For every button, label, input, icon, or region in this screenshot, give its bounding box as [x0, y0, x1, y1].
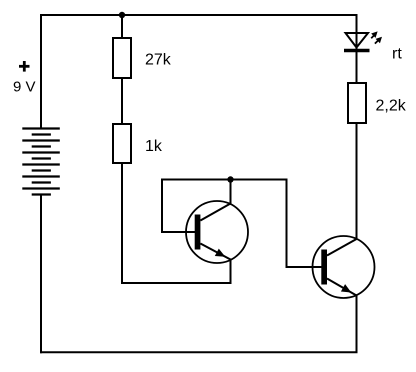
- wire top rail to 27k: [121, 15, 123, 38]
- node junction top dot: [119, 12, 125, 18]
- wire 1k to Q1 emitter: [122, 163, 231, 283]
- transistor Q1: [186, 201, 248, 263]
- LED emission arrow 1: [371, 31, 377, 38]
- wire bottom rail: [41, 351, 357, 353]
- wire left rail battery plus: [40, 15, 42, 128]
- svg-text:27k: 27k: [145, 52, 172, 69]
- svg-text:rt: rt: [392, 46, 402, 63]
- svg-text:9 V: 9 V: [13, 78, 36, 95]
- LED emission arrow 2: [375, 37, 382, 44]
- wire Q1 base link: [162, 180, 231, 233]
- resistor 1k: [113, 124, 131, 163]
- wire 27k to 1k: [121, 78, 123, 124]
- svg-text:2,2k: 2,2k: [376, 98, 407, 115]
- wire Q2 emitter to bottom rail: [356, 296, 358, 353]
- resistor 27k: [113, 38, 131, 78]
- battery 9V: [22, 129, 60, 195]
- wire 2,2k to Q2 collector: [356, 123, 358, 239]
- wire top rail: [41, 14, 357, 16]
- wire Q1 collector riser: [230, 180, 232, 204]
- label plus sign: [19, 61, 30, 72]
- LED D1: [344, 33, 370, 51]
- wire right rail top through LED: [356, 15, 358, 83]
- wire left rail battery minus: [40, 195, 42, 353]
- wire node to Q2 base: [231, 180, 322, 268]
- transistor Q2: [313, 236, 375, 298]
- resistor 2,2k: [348, 83, 366, 123]
- svg-text:1k: 1k: [145, 138, 163, 155]
- node Q1 collector dot: [227, 176, 233, 182]
